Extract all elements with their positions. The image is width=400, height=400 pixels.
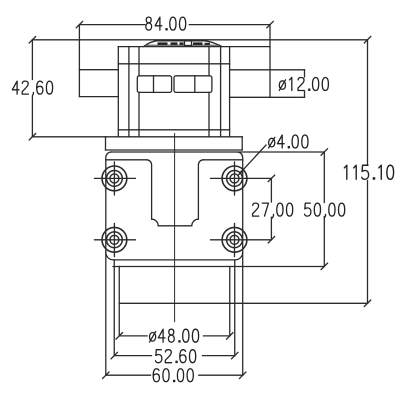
U channel shoulder right: [203, 159, 242, 161]
dimension 84.00 line: [79, 24, 270, 26]
brush window left divider: [153, 76, 155, 93]
tick 115.10 bottom: [364, 300, 370, 306]
extension line o48 left / chamber wall: [118, 267, 120, 336]
screw BR circles: [222, 227, 247, 252]
flange bottom edge: [106, 149, 243, 151]
screw TL circles: [102, 166, 127, 191]
text o48.00: [150, 329, 199, 342]
dome slot 5: [205, 43, 211, 45]
tick o48 right: [227, 333, 233, 339]
motor left edge: [117, 47, 119, 137]
tick 42,60 bottom: [29, 134, 35, 140]
rear housing bottom line: [230, 96, 305, 98]
tick 50,00 bottom: [321, 263, 327, 269]
dimension 42,60 line: [31, 40, 33, 137]
screw BR centerlines: [234, 224, 236, 257]
screw BL centerlines: [95, 224, 136, 257]
motor top edge: [118, 46, 270, 48]
tick 27,00 top: [268, 175, 274, 181]
dome slot 1: [158, 42, 168, 45]
leader line o4.00: [239, 145, 267, 175]
screw BL circles: [102, 227, 127, 252]
motor inner line right of window (hidden behind window): [208, 47, 210, 137]
brush window left: [137, 76, 171, 93]
extension line 52.60 right / pump wall: [234, 260, 236, 356]
extension line 52.60 left / pump wall: [113, 260, 115, 356]
text 60.00: [153, 369, 193, 382]
dome slot 3: [180, 42, 184, 45]
left tab bottom line: [79, 96, 118, 98]
leader arrowhead: [237, 170, 243, 176]
flange right edge: [241, 137, 243, 150]
text 42,60: [12, 81, 52, 96]
extension line 27,00 top (screw centerline): [211, 177, 272, 179]
tick 115.10 top: [364, 37, 370, 43]
dome slot band bottom line: [147, 44, 221, 46]
tick 42,60 top: [29, 37, 35, 43]
motor inner line right 2 / rear housing left edge: [229, 47, 231, 137]
tick 60 right: [240, 372, 246, 378]
extension line o48 right / chamber wall: [229, 267, 231, 336]
text 52.60: [156, 350, 196, 363]
text o12.00: [279, 78, 328, 91]
brush window right: [174, 76, 212, 93]
motor inner line left 1: [128, 47, 130, 137]
screw TR circles: [222, 166, 247, 191]
text 115.10: [344, 165, 393, 179]
extension line 60 right / bracket right edge extended: [242, 252, 244, 375]
dimension line 52.60: [114, 355, 235, 357]
extension line 84 right / rear housing right edge: [269, 25, 271, 98]
tick o48 left: [116, 333, 122, 339]
motor top dome: [144, 41, 223, 47]
tick 84 left: [76, 21, 82, 27]
shaft boss right edge (broken by text): [304, 70, 306, 98]
extension line bracket top (50,00 top): [111, 151, 324, 153]
motor end-cap line: [118, 63, 229, 65]
extension line 84 left / tab left edge: [78, 25, 80, 97]
text o4.00: [269, 135, 308, 148]
tick 50,00 top: [321, 149, 327, 155]
brush window right divider: [194, 76, 196, 93]
tick 84 right: [267, 21, 273, 27]
screw TL centerlines: [95, 162, 136, 195]
dimension line 60.00: [106, 374, 243, 376]
text 50,00: [305, 203, 345, 218]
rear housing top line: [230, 69, 305, 71]
pump centerline: [174, 134, 176, 322]
extension line pump bottom (115.10 bottom): [119, 302, 367, 304]
text 27,00: [253, 203, 293, 218]
bracket body rounded corners: [106, 152, 243, 260]
screw TR centerlines: [234, 162, 236, 195]
U channel outline: [147, 160, 204, 226]
extension line pump top (50,00 bottom): [113, 266, 324, 268]
tick 27,00 bottom: [268, 237, 274, 243]
tick 60 left: [103, 372, 109, 378]
dimension 27,00 line: [270, 178, 272, 239]
text 84.00: [146, 17, 186, 30]
tick 52.60 right: [232, 352, 238, 358]
left tab top line: [79, 69, 118, 71]
dimension 115.10 line: [367, 40, 369, 304]
extension line 60 left / bracket left edge extended: [105, 252, 107, 375]
motor bottom edge: [118, 129, 229, 131]
top extension line (42,60 and 115.10 top): [32, 39, 367, 41]
extension line flange top (42,60 bottom): [32, 136, 242, 138]
dimension line o48.00: [119, 335, 230, 337]
motor inner line left 2 (hidden behind window): [138, 47, 140, 137]
motor inner line right 1: [220, 47, 222, 137]
dome terminal square: [185, 41, 192, 46]
tick 52.60 left: [111, 352, 117, 358]
dome slot 4: [193, 42, 203, 45]
extension line 27,00 bottom (screw centerline): [211, 239, 272, 241]
flange left edge: [105, 137, 107, 150]
dome slot 2: [171, 42, 178, 45]
U channel shoulder left: [106, 159, 147, 161]
dimension 50,00 line: [323, 152, 325, 266]
